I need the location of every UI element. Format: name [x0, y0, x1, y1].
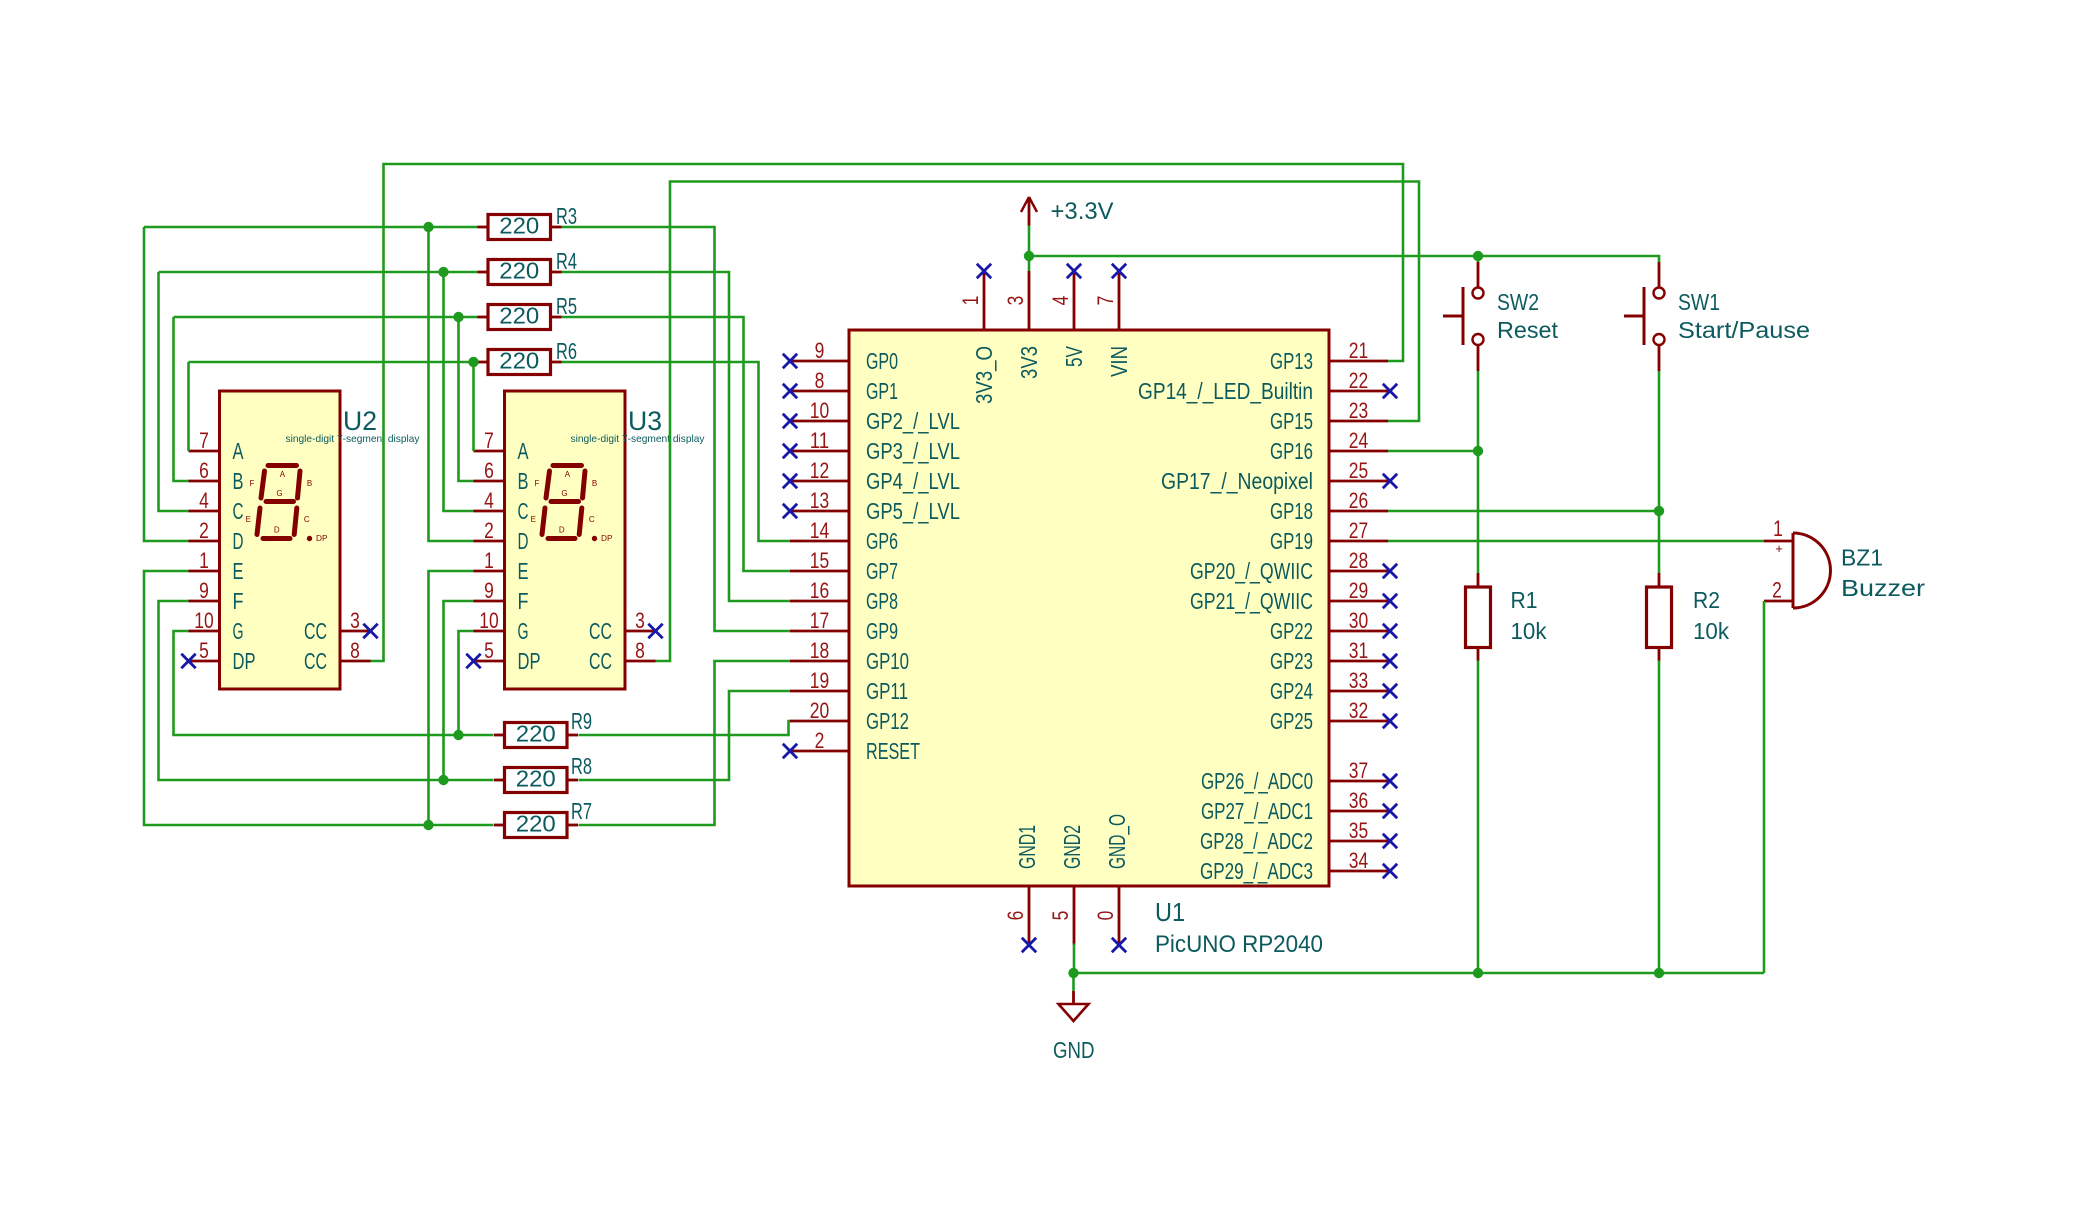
U1 pin 36 GP27_/_ADC1 [1201, 788, 1397, 824]
svg-text:GP10: GP10 [866, 648, 909, 674]
svg-text:7: 7 [484, 428, 494, 453]
svg-text:Reset: Reset [1497, 317, 1559, 343]
svg-text:F: F [535, 479, 540, 488]
svg-text:26: 26 [1349, 488, 1368, 513]
svg-text:DP: DP [233, 648, 256, 674]
U3 pin 8 CC [589, 638, 656, 674]
ground GND symbol [1059, 991, 1089, 1021]
svg-text:8: 8 [815, 368, 825, 393]
svg-text:13: 13 [810, 488, 829, 513]
U1 pin 34 GP29_/_ADC3 [1200, 848, 1397, 884]
wire net GP12 to R9 [579, 721, 791, 735]
svg-text:single-digit 7-segment display: single-digit 7-segment display [571, 433, 706, 445]
svg-text:6: 6 [1003, 911, 1028, 921]
svg-text:GP9: GP9 [866, 618, 898, 644]
U1 pin 26 GP18 [1270, 488, 1388, 524]
svg-text:36: 36 [1349, 788, 1368, 813]
svg-text:4: 4 [1048, 296, 1073, 306]
U3 7-segment digit glyph [531, 466, 613, 544]
wire net SEG_G: U2.G to R9 row and U3.G [174, 631, 494, 735]
svg-text:GP22: GP22 [1270, 618, 1313, 644]
svg-text:GP13: GP13 [1270, 348, 1313, 374]
U2 pin 2 D [189, 518, 244, 554]
svg-text:3: 3 [350, 608, 360, 633]
svg-text:DP: DP [601, 533, 613, 543]
U3 pin 1 E [474, 548, 529, 584]
svg-text:D: D [518, 528, 529, 554]
svg-text:2: 2 [815, 728, 825, 753]
U1 pin 31 GP23 [1270, 638, 1397, 674]
svg-text:A: A [280, 470, 286, 479]
svg-text:7: 7 [1093, 296, 1118, 306]
wire net +3V3 rail [1028, 226, 1031, 272]
svg-text:25: 25 [1349, 458, 1368, 483]
svg-text:U1: U1 [1155, 897, 1185, 927]
U1 pin 20 GP12 [790, 698, 909, 734]
svg-text:GP24: GP24 [1270, 678, 1313, 704]
U1 pin 2 RESET [783, 728, 920, 764]
junction R2 bottom [1654, 968, 1664, 978]
svg-text:B: B [307, 479, 312, 488]
U1 pin 24 GP16 [1270, 428, 1388, 464]
svg-text:B: B [518, 468, 529, 494]
svg-text:GP21_/_QWIIC: GP21_/_QWIIC [1190, 588, 1313, 614]
wire net GP15 to U3 CC (pin 8) [656, 182, 1420, 662]
U2 pin 3 CC [304, 608, 378, 644]
svg-text:D: D [233, 528, 244, 554]
U1 pin 14 GP6 [790, 518, 898, 554]
junction R1 bottom [1473, 968, 1483, 978]
junction +3V3 at SW2 [1473, 251, 1483, 261]
wire net GP9 to R3 [562, 227, 791, 631]
svg-text:220: 220 [499, 303, 539, 329]
svg-text:10k: 10k [1693, 618, 1729, 644]
svg-text:B: B [592, 479, 597, 488]
svg-text:5: 5 [199, 638, 209, 663]
svg-text:G: G [233, 618, 244, 644]
svg-text:G: G [276, 489, 282, 498]
U2 pin 10 G [189, 608, 244, 644]
svg-text:GP23: GP23 [1270, 648, 1313, 674]
svg-text:GP20_/_QWIIC: GP20_/_QWIIC [1190, 558, 1313, 584]
wire net SEG_A: R6 row to U2.A and U3.A [189, 361, 478, 364]
resistor R6 220 [478, 348, 562, 375]
svg-text:GP27_/_ADC1: GP27_/_ADC1 [1201, 798, 1313, 824]
svg-text:GP15: GP15 [1270, 408, 1313, 434]
svg-text:220: 220 [499, 348, 539, 374]
svg-text:3: 3 [635, 608, 645, 633]
svg-text:GND: GND [1053, 1037, 1095, 1063]
svg-text:31: 31 [1349, 638, 1368, 663]
svg-text:single-digit 7-segment display: single-digit 7-segment display [286, 433, 421, 445]
svg-text:4: 4 [199, 488, 209, 513]
svg-text:R1: R1 [1511, 587, 1538, 613]
U1 pin 33 GP24 [1270, 668, 1397, 704]
wire GP16 [1388, 450, 1478, 453]
wire net GP7 to R5 [562, 317, 791, 571]
U1 pin 28 GP20_/_QWIIC [1190, 548, 1397, 584]
U1 pin 12 GP4_/_LVL [783, 458, 960, 494]
svg-text:G: G [561, 489, 567, 498]
U1 pin 18 GP10 [790, 638, 909, 674]
wire net SW2 to R1 (GP16) [1477, 371, 1480, 573]
U3 pin 4 C [474, 488, 529, 524]
svg-text:C: C [518, 498, 529, 524]
svg-text:GP2_/_LVL: GP2_/_LVL [866, 408, 960, 434]
svg-text:CC: CC [304, 648, 327, 674]
resistor R5 220 [478, 303, 562, 330]
svg-text:F: F [233, 588, 244, 614]
svg-text:U3: U3 [628, 406, 662, 436]
U1 bottom pin 5 GND2 [1048, 825, 1085, 945]
svg-text:R3: R3 [556, 203, 577, 229]
svg-text:1: 1 [1773, 516, 1783, 541]
U3 pin 7 A [474, 428, 529, 464]
svg-text:CC: CC [589, 648, 612, 674]
wire net GP6 to R6 [562, 362, 791, 541]
svg-text:A: A [518, 438, 529, 464]
U1 pin 23 GP15 [1270, 398, 1388, 434]
svg-text:VIN: VIN [1106, 346, 1132, 377]
svg-text:5: 5 [484, 638, 494, 663]
IC U1 PicUNO RP2040 body [849, 330, 1329, 886]
svg-text:220: 220 [499, 258, 539, 284]
U1 pin 15 GP7 [790, 548, 898, 584]
junction R5/U3.B [453, 312, 463, 322]
svg-text:U2: U2 [343, 406, 377, 436]
buzzer BZ1 [1764, 516, 1830, 608]
svg-text:Buzzer: Buzzer [1841, 575, 1925, 601]
svg-text:9: 9 [484, 578, 494, 603]
svg-text:2: 2 [1772, 578, 1782, 603]
svg-text:E: E [518, 558, 529, 584]
U3 pin 6 B [474, 458, 529, 494]
U1 bottom pin 0 GND_O [1093, 814, 1130, 952]
svg-text:220: 220 [516, 811, 556, 837]
svg-text:R7: R7 [571, 798, 592, 824]
svg-text:+3.3V: +3.3V [1051, 198, 1114, 225]
svg-text:28: 28 [1349, 548, 1368, 573]
U1 pin 9 GP0 [783, 338, 898, 374]
U1 pin 11 GP3_/_LVL [783, 428, 960, 464]
svg-text:GP25: GP25 [1270, 708, 1313, 734]
svg-text:30: 30 [1349, 608, 1368, 633]
U2 pin 6 B [189, 458, 244, 494]
resistor R8 220 [494, 766, 578, 793]
U2 pin 7 A [189, 428, 244, 464]
svg-text:GP12: GP12 [866, 708, 909, 734]
svg-text:C: C [589, 515, 595, 524]
svg-text:GP0: GP0 [866, 348, 898, 374]
svg-text:A: A [565, 470, 571, 479]
svg-text:GP18: GP18 [1270, 498, 1313, 524]
svg-text:6: 6 [199, 458, 209, 483]
U2 pin 8 CC [304, 638, 371, 674]
svg-text:GP3_/_LVL: GP3_/_LVL [866, 438, 960, 464]
svg-text:R6: R6 [556, 338, 577, 364]
svg-text:E: E [233, 558, 244, 584]
U1 pin 37 GP26_/_ADC0 [1201, 758, 1397, 794]
U1 pin 35 GP28_/_ADC2 [1200, 818, 1397, 854]
svg-text:SW1: SW1 [1678, 289, 1720, 315]
svg-text:GP4_/_LVL: GP4_/_LVL [866, 468, 960, 494]
svg-text:DP: DP [518, 648, 541, 674]
svg-text:220: 220 [516, 721, 556, 747]
junction R4/U3.C [438, 267, 448, 277]
svg-text:33: 33 [1349, 668, 1368, 693]
svg-text:3V3: 3V3 [1016, 346, 1042, 379]
U1 pin 16 GP8 [790, 578, 898, 614]
svg-text:10k: 10k [1511, 618, 1547, 644]
U1 top pin 4 5V [1048, 264, 1087, 367]
U1 pin 32 GP25 [1270, 698, 1397, 734]
U1 pin 8 GP1 [783, 368, 898, 404]
wire net GP13 to U2 CC (pin 8) [371, 164, 1404, 661]
wire net SW1 to R2 (GP18) [1658, 371, 1661, 573]
svg-text:27: 27 [1349, 518, 1368, 543]
resistor R3 220 [478, 213, 562, 240]
U2 pin 5 DP [181, 638, 255, 674]
svg-text:GP28_/_ADC2: GP28_/_ADC2 [1200, 828, 1313, 854]
svg-text:3V3_O: 3V3_O [971, 346, 997, 404]
svg-text:A: A [233, 438, 244, 464]
svg-text:1: 1 [484, 548, 494, 573]
svg-text:GP16: GP16 [1270, 438, 1313, 464]
U2 pin 9 F [189, 578, 244, 614]
svg-text:CC: CC [304, 618, 327, 644]
svg-text:1: 1 [958, 296, 983, 306]
power symbol +3.3V [1021, 197, 1037, 226]
svg-text:R9: R9 [571, 708, 592, 734]
wire net GP8 to R4 [562, 272, 791, 601]
svg-text:F: F [518, 588, 529, 614]
junction GP16/R1 [1473, 446, 1483, 456]
wire net SEG_E: U2.E to R7 row and U3.E [144, 571, 494, 825]
svg-text:9: 9 [815, 338, 825, 363]
svg-text:RESET: RESET [866, 738, 920, 764]
7-segment display U2 body [220, 391, 341, 689]
U1 top pin 1 3V3_O [958, 264, 997, 404]
svg-text:R4: R4 [556, 248, 577, 274]
svg-text:29: 29 [1349, 578, 1368, 603]
junction R8/U3.F [438, 775, 448, 785]
svg-text:8: 8 [350, 638, 360, 663]
junction R7/U3.E [423, 820, 433, 830]
svg-text:12: 12 [810, 458, 829, 483]
svg-text:10: 10 [194, 608, 213, 633]
svg-text:20: 20 [810, 698, 829, 723]
resistor R2 10k [1647, 573, 1672, 661]
svg-text:4: 4 [484, 488, 494, 513]
junction GP18/R2 [1654, 506, 1664, 516]
switch SW1 Start/Pause [1624, 262, 1665, 371]
svg-text:Start/Pause: Start/Pause [1678, 317, 1810, 343]
U1 pin 25 GP17_/_Neopixel [1161, 458, 1397, 494]
svg-text:23: 23 [1349, 398, 1368, 423]
svg-text:E: E [246, 515, 251, 524]
U3 pin 3 CC [589, 608, 663, 644]
svg-text:R8: R8 [571, 753, 592, 779]
svg-text:GP6: GP6 [866, 528, 898, 554]
svg-text:18: 18 [810, 638, 829, 663]
svg-text:7: 7 [199, 428, 209, 453]
svg-text:CC: CC [589, 618, 612, 644]
svg-text:11: 11 [810, 428, 829, 453]
junction R6/U3.A [468, 357, 478, 367]
junction +3V3 at 3V3 pin stem [1024, 251, 1034, 261]
svg-text:GP11: GP11 [866, 678, 908, 704]
7-segment display U3 body [505, 391, 626, 689]
svg-text:220: 220 [499, 213, 539, 239]
svg-text:PicUNO RP2040: PicUNO RP2040 [1155, 931, 1323, 958]
resistor R9 220 [494, 721, 578, 748]
svg-text:GND1: GND1 [1014, 825, 1040, 869]
U3 pin 5 DP [466, 638, 540, 674]
svg-text:9: 9 [199, 578, 209, 603]
U1 bottom pin 6 GND1 [1003, 825, 1040, 952]
svg-text:35: 35 [1349, 818, 1368, 843]
svg-text:10: 10 [810, 398, 829, 423]
svg-text:1: 1 [199, 548, 209, 573]
svg-text:22: 22 [1349, 368, 1368, 393]
wire net SEG_B: R5 row to U2.B and U3.B [174, 316, 478, 319]
svg-text:F: F [250, 479, 255, 488]
resistor R1 10k [1466, 573, 1491, 661]
U1 pin 10 GP2_/_LVL [783, 398, 960, 434]
U1 pin 13 GP5_/_LVL [783, 488, 960, 524]
svg-text:GP17_/_Neopixel: GP17_/_Neopixel [1161, 468, 1313, 494]
svg-text:34: 34 [1349, 848, 1368, 873]
svg-text:DP: DP [316, 533, 328, 543]
U1 top pin 3 3V3 [1003, 271, 1042, 379]
svg-text:GP7: GP7 [866, 558, 898, 584]
U1 pin 17 GP9 [790, 608, 898, 644]
svg-text:D: D [274, 526, 280, 535]
junction R3/U3.D [423, 222, 433, 232]
svg-text:14: 14 [810, 518, 829, 543]
svg-text:8: 8 [635, 638, 645, 663]
resistor R4 220 [478, 258, 562, 285]
svg-text:B: B [233, 468, 244, 494]
svg-text:GP29_/_ADC3: GP29_/_ADC3 [1200, 858, 1313, 884]
U1 pin 21 GP13 [1270, 338, 1388, 374]
junction R9/U3.G [453, 730, 463, 740]
svg-text:G: G [518, 618, 529, 644]
svg-text:15: 15 [810, 548, 829, 573]
svg-text:GND2: GND2 [1059, 825, 1085, 869]
svg-text:32: 32 [1349, 698, 1368, 723]
svg-text:C: C [233, 498, 244, 524]
U1 pin 27 GP19 [1270, 518, 1388, 554]
svg-text:17: 17 [810, 608, 829, 633]
svg-text:220: 220 [516, 766, 556, 792]
wire net SEG_D: R3 row to U2.D and U3.D [144, 226, 478, 229]
svg-text:GP19: GP19 [1270, 528, 1313, 554]
svg-text:R2: R2 [1693, 587, 1720, 613]
U3 pin 9 F [474, 578, 529, 614]
wire GP18 [1388, 510, 1659, 513]
svg-text:2: 2 [484, 518, 494, 543]
U2 pin 1 E [189, 548, 244, 584]
svg-text:19: 19 [810, 668, 829, 693]
svg-text:5V: 5V [1061, 346, 1087, 367]
svg-text:GP5_/_LVL: GP5_/_LVL [866, 498, 960, 524]
wire net SEG_F: U2.F to R8 row and U3.F [159, 601, 494, 780]
U1 pin 30 GP22 [1270, 608, 1397, 644]
svg-text:0: 0 [1093, 911, 1118, 921]
U3 pin 2 D [474, 518, 529, 554]
U1 pin 29 GP21_/_QWIIC [1190, 578, 1397, 614]
svg-text:GP8: GP8 [866, 588, 898, 614]
U1 pin 22 GP14_/_LED_Builtin [1138, 368, 1397, 404]
svg-text:2: 2 [199, 518, 209, 543]
U2 pin 4 C [189, 488, 244, 524]
wire net GP11 to R8 [579, 691, 791, 780]
svg-text:GND_O: GND_O [1104, 814, 1130, 869]
wire net GP10 to R7 [579, 661, 791, 825]
svg-text:+: + [1775, 541, 1783, 556]
resistor R7 220 [494, 811, 578, 838]
svg-text:21: 21 [1349, 338, 1368, 363]
U3 pin 10 G [474, 608, 529, 644]
svg-text:37: 37 [1349, 758, 1368, 783]
junction GND stem [1068, 968, 1078, 978]
svg-text:GP26_/_ADC0: GP26_/_ADC0 [1201, 768, 1313, 794]
svg-text:BZ1: BZ1 [1841, 545, 1883, 571]
svg-text:10: 10 [479, 608, 498, 633]
svg-text:D: D [559, 526, 565, 535]
svg-text:5: 5 [1048, 911, 1073, 921]
svg-text:C: C [304, 515, 310, 524]
svg-text:GP1: GP1 [866, 378, 898, 404]
wire net GND bus [1073, 944, 1076, 974]
U1 top pin 7 VIN [1093, 264, 1132, 377]
svg-text:24: 24 [1349, 428, 1368, 453]
wire net GP19 to BZ1 pin 1 [1388, 540, 1764, 543]
svg-text:E: E [531, 515, 536, 524]
svg-text:SW2: SW2 [1497, 289, 1539, 315]
svg-text:R5: R5 [556, 293, 577, 319]
svg-text:GP14_/_LED_Builtin: GP14_/_LED_Builtin [1138, 378, 1313, 404]
svg-text:16: 16 [810, 578, 829, 603]
switch SW2 Reset [1443, 262, 1484, 371]
svg-text:6: 6 [484, 458, 494, 483]
wire net SEG_C: R4 row to U2.C and U3.C [159, 271, 478, 274]
svg-text:3: 3 [1003, 296, 1028, 306]
U1 pin 19 GP11 [790, 668, 908, 704]
U2 7-segment digit glyph [246, 466, 328, 544]
